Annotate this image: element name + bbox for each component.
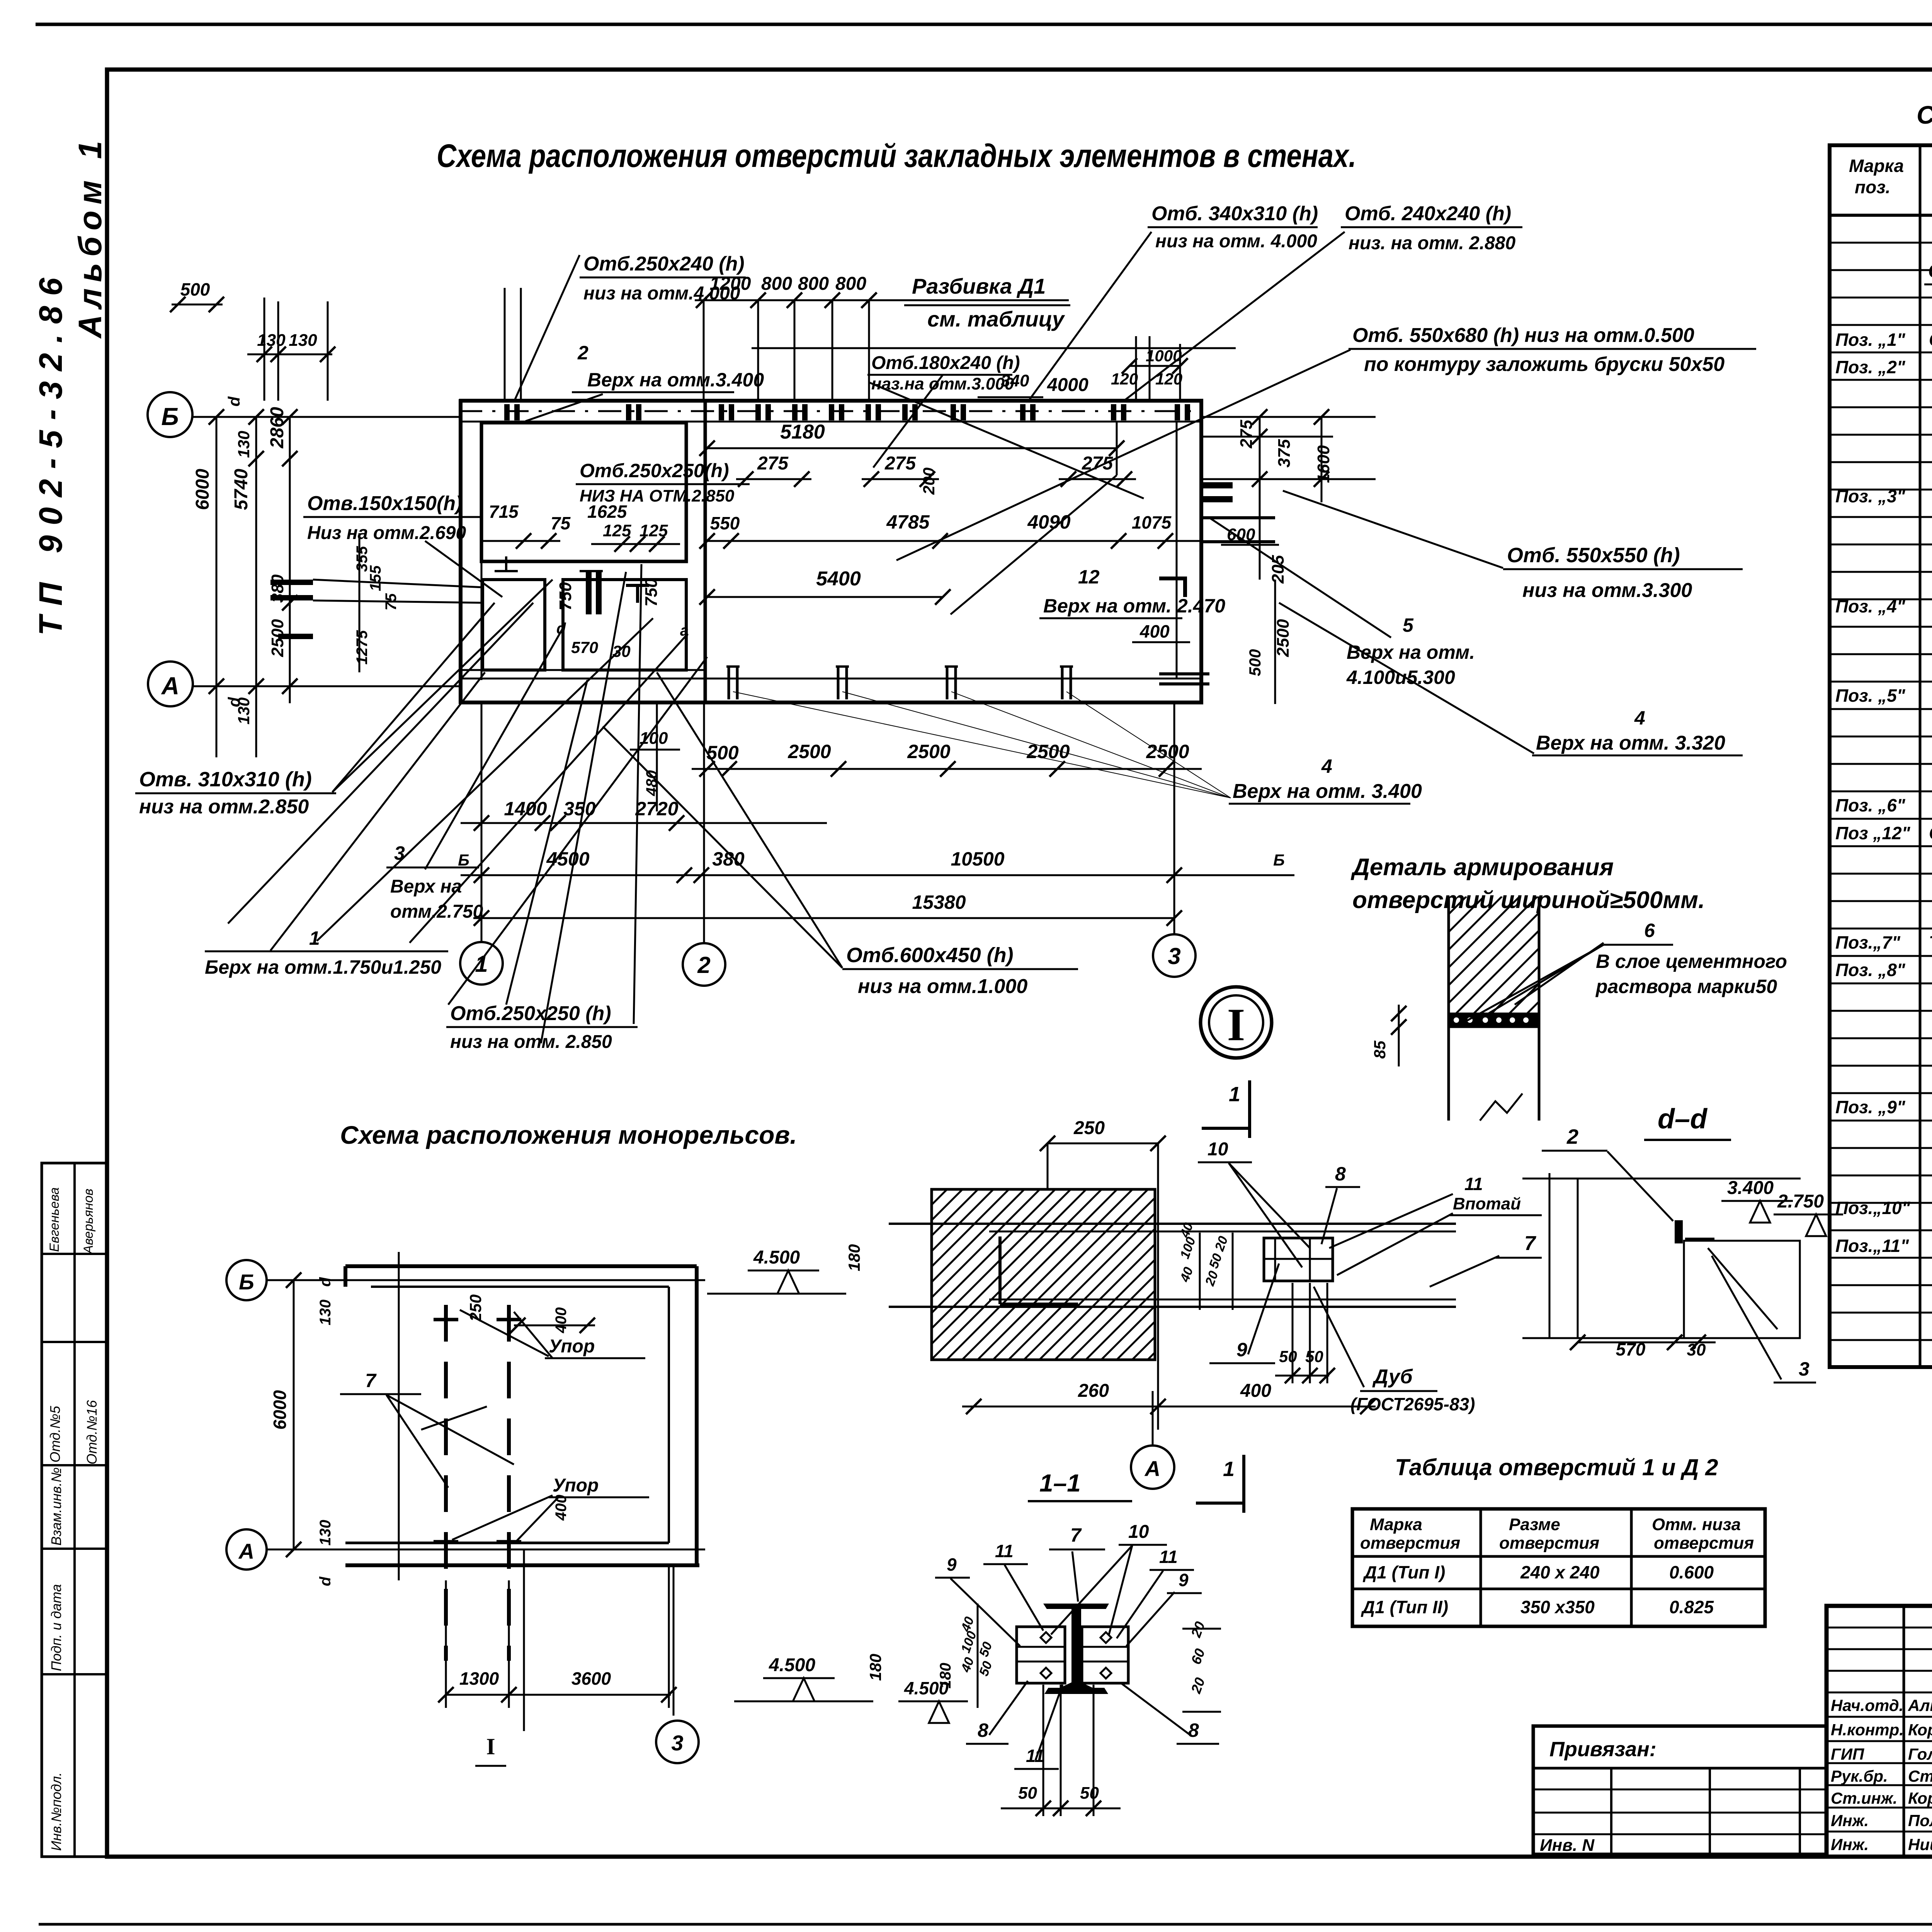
svg-text:4000: 4000	[1047, 375, 1088, 395]
svg-text:Берх на отм.1.750и1.250: Берх на отм.1.750и1.250	[205, 956, 441, 978]
pier break mark	[1480, 1094, 1522, 1121]
dims 275	[736, 478, 811, 480]
svg-text:Верх на: Верх на	[390, 876, 462, 897]
privyazan box	[1533, 1726, 1827, 1854]
svg-text:130: 130	[257, 331, 286, 350]
svg-text:Поз.„7": Поз.„7"	[1835, 932, 1901, 952]
svg-text:Н.контр.: Н.контр.	[1831, 1721, 1904, 1739]
dim chain 1400 350 2720	[461, 822, 827, 824]
svg-text:Инв. N: Инв. N	[1540, 1836, 1595, 1855]
dims 260 400	[962, 1406, 1376, 1408]
lower-left room B	[563, 580, 686, 670]
circle A section	[1131, 1446, 1174, 1489]
svg-text:800: 800	[798, 274, 829, 294]
svg-text:низ на отм.3.300: низ на отм.3.300	[1522, 579, 1692, 602]
svg-text:275: 275	[757, 453, 789, 474]
monorail square walls	[345, 1264, 697, 1268]
svg-text:5: 5	[1403, 614, 1414, 636]
svg-text:Ницкевич: Ницкевич	[1908, 1835, 1932, 1854]
svg-text:Отб.600х450 (h): Отб.600х450 (h)	[846, 944, 1014, 967]
svg-text:d: d	[225, 697, 243, 707]
dim 180 detail left	[888, 1224, 889, 1307]
svg-text:75: 75	[551, 513, 571, 533]
svg-text:по контуру заложить бруски 50: по контуру заложить бруски 50х50	[1364, 353, 1725, 376]
svg-text:2500: 2500	[1146, 741, 1189, 762]
svg-text:750: 750	[642, 578, 661, 607]
svg-text:d–d: d–d	[1658, 1104, 1708, 1134]
svg-text:Отв.150х150(h): Отв.150х150(h)	[307, 492, 462, 515]
svg-text:d: d	[317, 1576, 334, 1586]
svg-text:11: 11	[1159, 1547, 1178, 1567]
svg-text:4.500: 4.500	[753, 1247, 800, 1268]
svg-text:Отд.№5: Отд.№5	[47, 1406, 63, 1463]
svg-text:поз.: поз.	[1855, 177, 1890, 197]
svg-text:А: А	[161, 672, 179, 700]
svg-text:2: 2	[1566, 1125, 1578, 1148]
svg-text:0.825: 0.825	[1669, 1597, 1714, 1617]
svg-text:Инж.: Инж.	[1831, 1835, 1869, 1854]
svg-text:Марка: Марка	[1849, 156, 1904, 176]
svg-text:раствора марки50: раствора марки50	[1595, 976, 1777, 997]
svg-text:1000: 1000	[1146, 347, 1182, 365]
svg-text:низ на отм. 2.850: низ на отм. 2.850	[450, 1032, 612, 1052]
svg-text:100: 100	[639, 729, 668, 748]
svg-text:570: 570	[571, 638, 598, 656]
svg-text:Таблица отверстий 1 и Д 2: Таблица отверстий 1 и Д 2	[1395, 1454, 1718, 1480]
plan bottom wall	[459, 678, 1203, 680]
svg-text:50: 50	[1279, 1347, 1297, 1366]
svg-text:В слое цементного: В слое цементного	[1596, 951, 1787, 972]
svg-text:наз.на отм.3.000: наз.на отм.3.000	[871, 374, 1014, 393]
svg-text:3: 3	[1799, 1358, 1810, 1380]
svg-text:6000: 6000	[192, 469, 213, 510]
svg-text:500: 500	[1246, 649, 1264, 676]
svg-text:400: 400	[1240, 1381, 1271, 1401]
svg-text:Поз. „1": Поз. „1"	[1835, 330, 1906, 350]
svg-text:Инв.№подл.: Инв.№подл.	[48, 1772, 64, 1851]
svg-text:Отб.250х250 (h): Отб.250х250 (h)	[450, 1002, 611, 1025]
bolts	[1041, 1632, 1051, 1643]
svg-text:3: 3	[671, 1731, 683, 1755]
svg-text:715: 715	[489, 502, 519, 522]
svg-text:Поз.„11": Поз.„11"	[1835, 1236, 1909, 1256]
svg-text:Б: Б	[239, 1270, 254, 1294]
svg-text:Аверьянов: Аверьянов	[81, 1189, 96, 1255]
svg-text:Разбивка Д1: Разбивка Д1	[912, 274, 1046, 298]
svg-text:5740: 5740	[231, 469, 252, 510]
svg-text:275: 275	[1237, 420, 1256, 449]
svg-text:Дуб: Дуб	[1372, 1366, 1413, 1388]
svg-text:125: 125	[603, 521, 631, 540]
svg-text:2.750: 2.750	[1777, 1191, 1824, 1212]
svg-text:Ст.инж.: Ст.инж.	[1831, 1789, 1897, 1807]
svg-text:Отб. 550х680 (h) низ на отм.0.: Отб. 550х680 (h) низ на отм.0.500	[1352, 324, 1694, 347]
svg-text:8: 8	[1188, 1719, 1199, 1741]
svg-text:Упор: Упор	[549, 1336, 595, 1357]
svg-text:Отв. 310х310 (h): Отв. 310х310 (h)	[139, 768, 312, 791]
svg-text:4: 4	[1321, 755, 1332, 777]
svg-text:7: 7	[1070, 1524, 1082, 1546]
svg-text:Альтшуллер: Альтшуллер	[1908, 1696, 1932, 1714]
monorail axis B	[226, 1260, 267, 1300]
axis circle A	[148, 662, 193, 706]
svg-text:600: 600	[1227, 525, 1255, 544]
svg-text:Схема расположения монорельсов: Схема расположения монорельсов.	[340, 1121, 797, 1149]
svg-text:Верх на отм.: Верх на отм.	[1347, 641, 1475, 663]
svg-text:120: 120	[1111, 370, 1138, 388]
right side extension dims	[1203, 416, 1376, 418]
svg-text:Альбом 1: Альбом 1	[72, 135, 108, 339]
svg-text:85: 85	[1371, 1041, 1389, 1059]
svg-text:Б: Б	[1273, 851, 1285, 869]
dim chain 1200 800x3	[695, 299, 1069, 301]
svg-text:50: 50	[1018, 1784, 1037, 1803]
svg-text:см. таблицу: см. таблицу	[927, 307, 1065, 331]
dim chain 500+2500x4	[692, 768, 1202, 770]
monorail vertical ref line	[398, 1252, 400, 1580]
monorail axis A	[226, 1529, 267, 1570]
svg-text:10500: 10500	[951, 848, 1004, 870]
svg-text:Марка: Марка	[1370, 1515, 1422, 1534]
d-d outline	[1549, 1173, 1551, 1338]
svg-text:Поз.„10": Поз.„10"	[1835, 1198, 1911, 1218]
svg-text:Евгеньева: Евгеньева	[47, 1187, 62, 1252]
svg-text:7: 7	[1524, 1232, 1536, 1255]
sheet bottom border line	[39, 1923, 1932, 1926]
stamp sidebar boxes	[42, 1163, 107, 1857]
svg-text:d: d	[317, 1277, 334, 1287]
svg-text:Корнилова: Корнилова	[1908, 1789, 1932, 1807]
dim 500 top-left	[172, 304, 223, 306]
sheet top border line	[36, 23, 1932, 26]
svg-text:3600: 3600	[571, 1668, 611, 1689]
signature rows	[1827, 1627, 1932, 1629]
svg-text:Схема расположения закладных э: Схема расположения закладных элементов в…	[1928, 260, 1932, 282]
svg-text:550: 550	[710, 513, 740, 533]
svg-text:Поз. „6": Поз. „6"	[1835, 795, 1906, 815]
svg-text:4090: 4090	[1027, 511, 1070, 533]
svg-text:130: 130	[235, 431, 253, 458]
svg-text:Отм. низа: Отм. низа	[1652, 1515, 1741, 1534]
svg-text:350 х350: 350 х350	[1520, 1597, 1595, 1617]
svg-text:400: 400	[553, 1495, 570, 1521]
svg-text:1: 1	[309, 927, 320, 949]
svg-text:ТП902-2-: ТП902-2-	[1929, 932, 1932, 952]
svg-text:низ на отм.4.000: низ на отм.4.000	[583, 283, 740, 304]
mortar band	[1449, 1014, 1539, 1027]
svg-text:низ. на отм. 2.880: низ. на отм. 2.880	[1349, 233, 1515, 253]
axis 2 circle	[683, 943, 725, 986]
svg-text:Поз. „3": Поз. „3"	[1835, 486, 1906, 506]
dim 5180	[707, 447, 1117, 449]
svg-text:2500: 2500	[907, 741, 950, 762]
chain 550 4785 4090 1075	[707, 540, 1202, 542]
svg-text:I: I	[1227, 999, 1245, 1050]
svg-text:130: 130	[317, 1520, 334, 1546]
monorail rails dashed	[444, 1305, 448, 1661]
svg-text:1: 1	[1223, 1458, 1235, 1481]
svg-text:Отб. 340х310 (h): Отб. 340х310 (h)	[1151, 202, 1318, 225]
angle in wall	[998, 1236, 1002, 1304]
svg-text:Подп. и дата: Подп. и дата	[48, 1584, 64, 1671]
dim 15380	[473, 917, 1175, 919]
plan left wall	[459, 399, 463, 704]
svg-text:Поз. „5": Поз. „5"	[1835, 685, 1906, 706]
svg-text:260: 260	[1078, 1381, 1109, 1401]
svg-text:1–1: 1–1	[1039, 1469, 1081, 1497]
svg-text:ГИП: ГИП	[1831, 1745, 1864, 1763]
svg-text:Отб. 240х240 (h): Отб. 240х240 (h)	[1345, 202, 1511, 225]
plate assembly	[1264, 1238, 1333, 1281]
svg-text:2: 2	[697, 952, 710, 978]
axis 3 circle	[1153, 934, 1196, 977]
svg-text:240 х 240: 240 х 240	[1520, 1562, 1600, 1582]
svg-text:5400: 5400	[816, 568, 861, 590]
svg-text:2500: 2500	[787, 741, 831, 762]
monorail dims left	[293, 1280, 295, 1549]
svg-text:1400: 1400	[504, 798, 547, 820]
svg-text:Д1 (Тип II): Д1 (Тип II)	[1361, 1597, 1448, 1617]
detail wall hatched	[932, 1189, 1155, 1360]
svg-text:350: 350	[563, 798, 596, 820]
svg-text:Низ на отм.2.690: Низ на отм.2.690	[307, 523, 466, 543]
svg-text:130: 130	[317, 1299, 334, 1325]
top wall embed marks	[504, 404, 510, 420]
svg-text:Спецификация к стальным элемен: Спецификация к стальным элементам в стен…	[1917, 100, 1932, 129]
corridor line	[459, 669, 705, 671]
svg-text:Нач.отд.: Нач.отд.	[1831, 1696, 1903, 1714]
svg-text:Схема расположения отверстий з: Схема расположения отверстий закладных э…	[437, 138, 1356, 174]
svg-text:380: 380	[712, 848, 745, 870]
svg-text:1300: 1300	[459, 1668, 499, 1689]
svg-text:155: 155	[367, 565, 384, 591]
dim 570 30	[1578, 1342, 1716, 1344]
right wall embeds	[1203, 482, 1233, 488]
svg-text:8: 8	[1335, 1163, 1346, 1185]
svg-text:низ на отм.1.000: низ на отм.1.000	[858, 975, 1027, 998]
signature table verticals	[1903, 1606, 1905, 1857]
svg-text:1625: 1625	[587, 502, 628, 522]
svg-text:I: I	[486, 1734, 495, 1759]
svg-text:400: 400	[553, 1307, 570, 1333]
svg-text:4.100и5.300: 4.100и5.300	[1346, 667, 1455, 688]
svg-text:375: 375	[1275, 439, 1294, 468]
svg-text:275: 275	[1082, 453, 1113, 474]
plan embedded plates left rooms	[586, 571, 592, 614]
svg-text:11: 11	[995, 1541, 1014, 1561]
svg-text:3.400: 3.400	[1727, 1178, 1774, 1198]
axis 1 circle	[460, 942, 503, 985]
svg-text:Поз. „4": Поз. „4"	[1835, 596, 1906, 616]
svg-text:Полякова: Полякова	[1908, 1811, 1932, 1830]
svg-text:4500: 4500	[546, 848, 589, 870]
leader lines lower-left	[228, 603, 533, 923]
plan top wall	[459, 399, 1203, 403]
plates right	[1082, 1627, 1128, 1683]
svg-text:9: 9	[1179, 1570, 1189, 1590]
left vertical dim lines	[216, 417, 218, 757]
svg-text:800: 800	[761, 274, 792, 294]
svg-text:2: 2	[577, 342, 588, 364]
svg-text:750: 750	[556, 582, 575, 611]
svg-text:10: 10	[1128, 1522, 1149, 1542]
svg-text:275: 275	[884, 453, 916, 474]
svg-text:30: 30	[612, 642, 631, 660]
svg-text:4785: 4785	[886, 511, 930, 533]
svg-text:Б: Б	[161, 403, 179, 430]
bottom wall staples	[726, 667, 740, 699]
svg-text:Отб.250х250(h): Отб.250х250(h)	[580, 460, 729, 481]
monorail circle 3	[656, 1721, 699, 1763]
svg-text:50: 50	[1080, 1784, 1099, 1803]
upper-left room	[481, 423, 686, 561]
svg-text:Гольдина: Гольдина	[1908, 1745, 1932, 1763]
svg-text:250: 250	[1073, 1118, 1105, 1138]
svg-text:2860: 2860	[267, 407, 287, 449]
svg-text:отверстия: отверстия	[1360, 1534, 1460, 1553]
svg-text:50: 50	[1305, 1347, 1323, 1366]
svg-text:Станина: Станина	[1908, 1767, 1932, 1785]
dim 5400	[707, 596, 943, 598]
beam top lines	[889, 1223, 1456, 1225]
svg-text:0.600: 0.600	[1669, 1562, 1714, 1582]
svg-text:6000: 6000	[270, 1390, 290, 1430]
svg-text:130: 130	[289, 331, 317, 350]
svg-text:30: 30	[1687, 1340, 1706, 1359]
svg-text:10: 10	[1207, 1139, 1228, 1160]
svg-text:9: 9	[1236, 1339, 1247, 1361]
svg-text:11: 11	[1026, 1746, 1044, 1766]
svg-text:7: 7	[365, 1370, 377, 1391]
lower-left room A	[483, 580, 545, 670]
dim 130 130	[247, 354, 332, 355]
svg-text:500: 500	[180, 279, 210, 299]
axis circle B	[148, 392, 192, 437]
svg-text:4.500: 4.500	[904, 1678, 949, 1698]
svg-text:Корнилова: Корнилова	[1908, 1721, 1932, 1739]
svg-text:340: 340	[1001, 371, 1029, 390]
svg-text:Привязан:: Привязан:	[1549, 1738, 1656, 1761]
svg-text:12: 12	[1078, 566, 1100, 588]
plan right wall	[1199, 399, 1203, 704]
svg-text:4: 4	[1634, 707, 1645, 729]
svg-text:Поз. „9": Поз. „9"	[1835, 1097, 1906, 1117]
svg-text:Упор: Упор	[553, 1475, 599, 1496]
svg-text:Б: Б	[458, 851, 469, 869]
svg-text:Отб.250х240 (h): Отб.250х240 (h)	[583, 253, 745, 275]
svg-text:400: 400	[1139, 621, 1170, 641]
dim chain 4500 380 10500	[461, 874, 1294, 876]
svg-text:Инж.: Инж.	[1831, 1811, 1869, 1830]
partition axis 2	[704, 401, 707, 702]
svg-text:Верх на отм. 3.400: Верх на отм. 3.400	[1233, 780, 1422, 803]
svg-text:низ на отм.2.850: низ на отм.2.850	[139, 796, 309, 818]
svg-text:15380: 15380	[912, 891, 966, 913]
svg-text:d: d	[225, 396, 243, 406]
beam bottom lines	[989, 1299, 1456, 1301]
svg-text:Впотай: Впотай	[1453, 1194, 1521, 1213]
svg-text:низ на отм. 4.000: низ на отм. 4.000	[1155, 231, 1317, 252]
svg-text:800: 800	[835, 274, 866, 294]
dim 1300 3600	[446, 1694, 671, 1696]
svg-text:6: 6	[1644, 920, 1655, 941]
svg-text:Верх на отм. 3.320: Верх на отм. 3.320	[1536, 732, 1725, 754]
svg-text:Отд.№16: Отд.№16	[84, 1400, 100, 1464]
svg-text:Поз „12": Поз „12"	[1835, 823, 1911, 843]
svg-text:200: 200	[920, 468, 938, 495]
svg-text:Отб.180х240 (h): Отб.180х240 (h)	[871, 353, 1020, 373]
svg-text:Серия 5.905-8: Серия 5.905-8	[1929, 823, 1932, 843]
svg-text:ТП 902-5-32.86: ТП 902-5-32.86	[32, 268, 69, 636]
svg-text:Поз. „2": Поз. „2"	[1835, 357, 1906, 377]
svg-text:d: d	[556, 620, 566, 637]
svg-text:А: А	[1144, 1456, 1160, 1481]
svg-text:1075: 1075	[1132, 512, 1172, 532]
svg-text:Разме: Разме	[1509, 1515, 1560, 1534]
svg-text:Верх на отм. 2.470: Верх на отм. 2.470	[1043, 595, 1225, 617]
plates left	[1017, 1627, 1065, 1683]
embedded angle d-d	[1675, 1220, 1683, 1243]
small left embeds	[270, 580, 313, 585]
svg-text:отверстия: отверстия	[1654, 1534, 1754, 1553]
svg-text:Серия 3.400-6/76: Серия 3.400-6/76	[1929, 330, 1932, 350]
svg-text:отверстий шириной≥500мм.: отверстий шириной≥500мм.	[1352, 887, 1705, 913]
pier hatched	[1447, 896, 1450, 1121]
svg-text:Взам.инв.№: Взам.инв.№	[48, 1467, 64, 1546]
svg-text:Верх на отм.3.400: Верх на отм.3.400	[587, 369, 764, 391]
svg-text:1: 1	[1229, 1083, 1240, 1106]
svg-text:Отб. 550х550 (h): Отб. 550х550 (h)	[1507, 544, 1680, 567]
svg-text:5180: 5180	[780, 421, 825, 443]
svg-text:570: 570	[1616, 1339, 1646, 1359]
svg-text:3: 3	[1168, 943, 1180, 969]
svg-text:отверстия: отверстия	[1499, 1534, 1599, 1553]
svg-text:8: 8	[978, 1719, 988, 1741]
svg-text:1600: 1600	[1314, 445, 1333, 483]
svg-text:4.500: 4.500	[769, 1655, 815, 1675]
svg-text:180: 180	[845, 1244, 863, 1271]
svg-text:Д1 (Тип I): Д1 (Тип I)	[1362, 1562, 1445, 1582]
svg-text:180: 180	[866, 1654, 884, 1681]
I-beam section	[1043, 1604, 1109, 1694]
svg-text:Рук.бр.: Рук.бр.	[1831, 1767, 1888, 1785]
svg-text:11: 11	[1464, 1174, 1483, 1194]
svg-text:1275: 1275	[354, 630, 371, 665]
svg-text:9: 9	[947, 1554, 957, 1575]
slab rect	[1684, 1241, 1800, 1338]
detail I circle	[1201, 987, 1272, 1058]
svg-text:Деталь армирования: Деталь армирования	[1350, 854, 1614, 881]
svg-text:Поз. „8": Поз. „8"	[1835, 960, 1906, 980]
svg-text:2500: 2500	[1274, 619, 1293, 657]
dim 250	[1048, 1143, 1158, 1145]
spec row lines	[1830, 242, 1932, 244]
svg-text:А: А	[238, 1539, 254, 1563]
